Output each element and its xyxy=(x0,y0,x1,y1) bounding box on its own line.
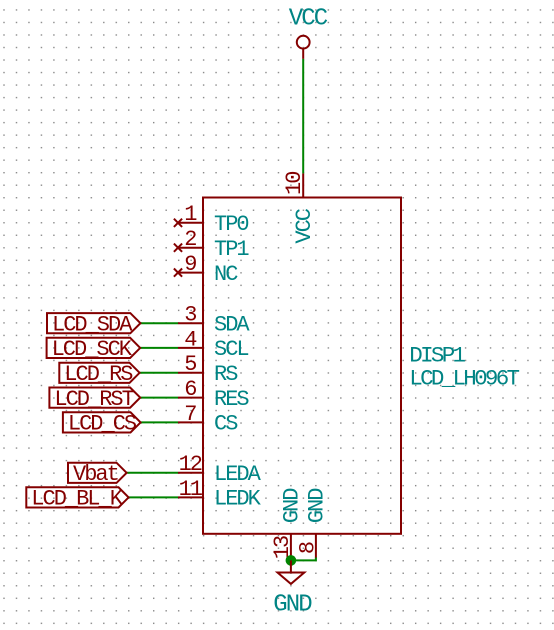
wire VCC to pin 10 xyxy=(302,59,304,173)
svg-text:NC: NC xyxy=(214,262,238,287)
global label LCD_CS xyxy=(63,412,141,437)
svg-text:TP0: TP0 xyxy=(214,212,248,237)
svg-text:9: 9 xyxy=(184,252,196,277)
svg-text:2: 2 xyxy=(184,227,196,252)
pin 11 LEDK xyxy=(178,477,262,512)
svg-text:4: 4 xyxy=(184,327,197,352)
reference DISP1 xyxy=(409,342,465,368)
svg-text:GND: GND xyxy=(273,592,312,619)
wire LCD_BL_K to pin 11 xyxy=(129,496,178,498)
svg-text:SCL: SCL xyxy=(214,337,248,362)
global label LCD_SCK xyxy=(47,337,141,362)
svg-text:LCD_LH096T: LCD_LH096T xyxy=(409,365,519,391)
svg-text:7: 7 xyxy=(184,402,196,427)
svg-text:11: 11 xyxy=(179,477,203,502)
svg-text:Vbat: Vbat xyxy=(73,462,118,487)
global label LCD_RST xyxy=(49,387,140,412)
svg-text:LEDA: LEDA xyxy=(214,462,262,487)
pin 13 GND (bottom) xyxy=(270,488,304,560)
no-connect X pin 9 xyxy=(174,269,182,277)
power symbol VCC xyxy=(289,5,328,59)
svg-text:6: 6 xyxy=(184,377,196,402)
wire LCD_RS to pin 5 xyxy=(140,372,178,374)
pin 2 TP1 xyxy=(178,227,249,262)
global label LCD_BL_K xyxy=(26,487,128,512)
svg-text:3: 3 xyxy=(184,303,196,328)
pin 1 TP0 xyxy=(178,202,248,237)
svg-text:LCD_CS: LCD_CS xyxy=(68,412,137,437)
svg-text:GND: GND xyxy=(305,488,330,523)
svg-text:10: 10 xyxy=(282,172,307,195)
svg-text:LCD_SDA: LCD_SDA xyxy=(52,312,133,337)
pin 7 CS xyxy=(178,402,238,437)
svg-text:TP1: TP1 xyxy=(214,237,249,262)
svg-text:1: 1 xyxy=(184,202,197,227)
wire LCD_SCK to pin 4 xyxy=(140,347,178,349)
svg-text:LCD_RST: LCD_RST xyxy=(54,387,134,412)
svg-text:LEDK: LEDK xyxy=(214,487,262,512)
no-connect X pin 2 xyxy=(174,244,182,252)
svg-text:SDA: SDA xyxy=(214,312,250,337)
pin 12 LEDA xyxy=(178,452,262,487)
wire LCD_CS to pin 7 xyxy=(141,421,178,423)
wire LCD_SDA to pin 3 xyxy=(140,322,178,324)
ground symbol GND xyxy=(273,560,312,618)
svg-text:RES: RES xyxy=(214,387,249,412)
svg-text:RS: RS xyxy=(214,362,238,387)
component DISP1 LCD_LH096T body xyxy=(203,198,401,534)
wire pin 8 to junction xyxy=(291,558,316,561)
pin 8 GND (bottom) xyxy=(295,488,329,559)
pin 9 NC xyxy=(178,252,238,287)
global label LCD_RS xyxy=(59,362,139,387)
no-connect X pin 1 xyxy=(174,219,182,227)
pin 5 RS xyxy=(178,352,238,387)
pin 6 RES xyxy=(178,377,249,412)
svg-text:LCD_RS: LCD_RS xyxy=(64,362,133,387)
svg-text:VCC: VCC xyxy=(292,208,317,243)
value LCD_LH096T xyxy=(409,365,519,391)
svg-text:CS: CS xyxy=(214,412,238,437)
svg-text:8: 8 xyxy=(295,542,320,554)
svg-text:12: 12 xyxy=(179,452,202,477)
junction pin13/pin8/GND xyxy=(286,555,297,566)
svg-text:LCD_SCK: LCD_SCK xyxy=(52,337,133,362)
wire LCD_RST to pin 6 xyxy=(140,397,178,399)
pin 10 VCC (top) xyxy=(282,172,317,244)
pin 3 SDA xyxy=(178,303,250,338)
svg-text:VCC: VCC xyxy=(289,5,328,32)
global label Vbat xyxy=(68,462,127,487)
svg-text:LCD_BL_K: LCD_BL_K xyxy=(31,487,123,512)
svg-text:5: 5 xyxy=(184,352,196,377)
svg-text:GND: GND xyxy=(280,488,305,523)
wire Vbat to pin 12 xyxy=(127,472,178,474)
pin 4 SCL xyxy=(178,327,248,362)
global label LCD_SDA xyxy=(47,312,140,337)
